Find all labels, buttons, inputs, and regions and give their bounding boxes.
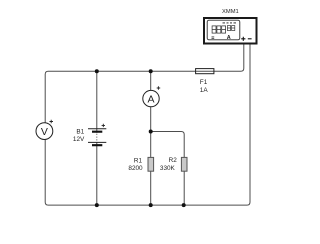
svg-text:R1: R1 (134, 157, 143, 164)
svg-text:A: A (227, 35, 231, 41)
svg-text:A: A (147, 94, 154, 106)
svg-text:R2: R2 (169, 157, 178, 164)
svg-text:1A: 1A (200, 87, 209, 94)
svg-text:12V: 12V (73, 136, 85, 143)
svg-text:F1: F1 (200, 79, 208, 86)
svg-text:B1: B1 (76, 129, 84, 136)
svg-text:XMM1: XMM1 (222, 9, 239, 15)
svg-text:V: V (41, 126, 48, 138)
svg-text:8200: 8200 (128, 165, 143, 172)
svg-text:330K: 330K (160, 165, 176, 172)
